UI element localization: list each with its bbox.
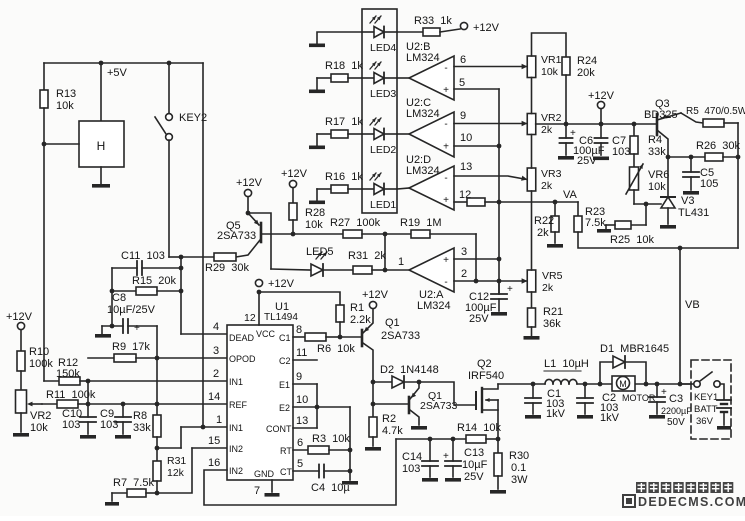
svg-text:+: + bbox=[570, 128, 576, 139]
svg-text:C14: C14 bbox=[402, 451, 422, 463]
svg-text:25V: 25V bbox=[464, 471, 484, 483]
wire R23 to lower bus / right bus bbox=[578, 232, 738, 248]
terminal +12V mid bbox=[588, 90, 615, 124]
svg-text:GND: GND bbox=[254, 469, 275, 479]
svg-text:TL1494: TL1494 bbox=[264, 312, 298, 323]
svg-text:R10: R10 bbox=[29, 346, 49, 358]
svg-text:VR6: VR6 bbox=[648, 169, 669, 181]
svg-text:8: 8 bbox=[296, 324, 302, 336]
svg-text:KEY1: KEY1 bbox=[694, 392, 718, 403]
svg-text:IN2: IN2 bbox=[229, 444, 243, 454]
wiper arrow VR2 left bbox=[27, 402, 42, 407]
svg-text:+5V: +5V bbox=[107, 67, 128, 79]
svg-text:3W: 3W bbox=[511, 474, 528, 486]
ground under V3 bbox=[660, 225, 676, 229]
resistor R29 30k bbox=[181, 253, 250, 274]
node VCC/+12V bbox=[257, 290, 262, 295]
svg-text:103: 103 bbox=[62, 419, 80, 431]
IC U1 TL1494 bbox=[208, 301, 308, 497]
wire +12V to Q5 emitter bbox=[247, 197, 249, 213]
wire L1 to motor/battery bbox=[577, 383, 691, 385]
svg-text:R15 20k: R15 20k bbox=[132, 275, 177, 287]
resistor R15 20k bbox=[112, 275, 181, 295]
wiper arrow VR2 bbox=[522, 121, 528, 126]
terminal +12V left bbox=[6, 311, 33, 330]
rheostat VR6 10k bbox=[626, 154, 669, 194]
node +12V/C7 bbox=[599, 122, 604, 127]
capacitor C11 103 bbox=[112, 250, 181, 275]
wire R9 node to REF row bbox=[156, 358, 158, 404]
ground under R21 bbox=[524, 336, 540, 340]
node pin1/top bus bbox=[201, 425, 206, 430]
capacitor C14 103 bbox=[402, 439, 438, 477]
node R3/gnd-col bbox=[348, 448, 353, 453]
svg-text:10: 10 bbox=[460, 132, 472, 144]
wire R19 to pin2 bbox=[475, 234, 477, 281]
op-amp U2:D LM324 bbox=[406, 154, 454, 210]
wire H to left bus bbox=[44, 143, 79, 145]
svg-text:IN1: IN1 bbox=[229, 423, 243, 433]
svg-text:LM324: LM324 bbox=[406, 165, 440, 177]
svg-text:D1 MBR1645: D1 MBR1645 bbox=[600, 343, 669, 355]
wire VA bus vertical bbox=[498, 89, 500, 294]
node R27/R19 bbox=[383, 232, 388, 237]
svg-text:R13: R13 bbox=[56, 88, 76, 100]
ground at R17 bbox=[309, 146, 325, 150]
LED LED5 bbox=[271, 246, 353, 276]
svg-text:2k: 2k bbox=[542, 282, 554, 294]
node R4 top bbox=[632, 122, 637, 127]
wire C8 to R9 node bbox=[156, 326, 158, 358]
node R7/R31 bbox=[155, 491, 160, 496]
battery box KEY1 BATT 36V bbox=[691, 360, 731, 439]
wire VR1 top to R24 bbox=[532, 33, 567, 57]
svg-text:BATT: BATT bbox=[694, 404, 718, 415]
svg-text:1: 1 bbox=[398, 256, 404, 268]
svg-text:36V: 36V bbox=[696, 416, 714, 427]
pin 5 label bbox=[459, 77, 465, 89]
potentiometer VR3 2k bbox=[527, 168, 561, 192]
potentiometer VR1 10k bbox=[527, 54, 561, 78]
watermark bbox=[623, 482, 745, 509]
svg-text:2: 2 bbox=[213, 368, 219, 380]
resistor R1 2.2k bbox=[336, 302, 371, 337]
ground under C13 bbox=[445, 478, 461, 482]
svg-text:36k: 36k bbox=[543, 318, 561, 330]
ground at Q1 clamp bbox=[411, 426, 427, 430]
resistor R5 470/0.5W bbox=[686, 106, 745, 127]
svg-text:LED5: LED5 bbox=[306, 246, 334, 258]
resistor R3 10k bbox=[293, 433, 350, 454]
svg-text:R27 100k: R27 100k bbox=[330, 217, 381, 229]
wire C10 column bbox=[87, 381, 89, 417]
svg-text:R6 10k: R6 10k bbox=[317, 343, 355, 355]
capacitor C1 103 1kV bbox=[525, 384, 566, 420]
pin 12 label bbox=[459, 189, 471, 201]
svg-text:H: H bbox=[97, 139, 106, 153]
pin 7 GND wire bbox=[271, 480, 273, 492]
resistor R11 100k bbox=[42, 389, 96, 408]
svg-text:R22: R22 bbox=[534, 215, 554, 227]
node VA pin12 bbox=[497, 200, 502, 205]
ground at C8 bbox=[95, 334, 111, 338]
svg-text:10k: 10k bbox=[541, 66, 559, 78]
svg-text:9: 9 bbox=[296, 371, 302, 383]
svg-text:13: 13 bbox=[460, 161, 472, 173]
ground under C1 bbox=[525, 415, 541, 419]
node H-left junction bbox=[42, 142, 47, 147]
svg-text:5: 5 bbox=[459, 77, 465, 89]
svg-text:V3: V3 bbox=[681, 195, 694, 207]
svg-text:+12V: +12V bbox=[473, 22, 500, 34]
capacitor C12 100uF 25V bbox=[465, 281, 513, 325]
svg-text:20k: 20k bbox=[577, 67, 595, 79]
wire VR2 to ground bbox=[20, 413, 22, 432]
svg-text:VR1: VR1 bbox=[541, 54, 562, 66]
svg-text:2k: 2k bbox=[537, 227, 549, 239]
resistor R27 100k bbox=[330, 217, 385, 238]
ground at R25 bbox=[597, 229, 611, 233]
svg-text:R18 1k: R18 1k bbox=[325, 60, 363, 72]
wire R17 to ground bbox=[316, 134, 318, 145]
node C1 top bbox=[531, 382, 536, 387]
svg-text:Q1: Q1 bbox=[385, 317, 400, 329]
capacitor C8 10uF/25V bbox=[102, 292, 157, 334]
svg-text:+12V: +12V bbox=[236, 177, 263, 189]
wire pin2 to VR5 wiper bbox=[454, 280, 527, 282]
potentiometer VR2 10k (left) bbox=[16, 371, 52, 434]
svg-text:103: 103 bbox=[402, 463, 420, 475]
svg-text:3: 3 bbox=[461, 246, 467, 258]
node R9/C8 bbox=[155, 356, 160, 361]
svg-text:1kV: 1kV bbox=[546, 408, 566, 420]
node C6/R24 bbox=[564, 122, 569, 127]
node KEY2 top junction bbox=[167, 61, 172, 66]
svg-text:2SA733: 2SA733 bbox=[420, 400, 458, 412]
wire REF row bbox=[88, 403, 227, 405]
hall sensor H bbox=[79, 121, 124, 167]
svg-text:14: 14 bbox=[208, 391, 220, 403]
resistor R21 36k bbox=[528, 306, 564, 330]
svg-text:+: + bbox=[443, 451, 449, 462]
svg-text:+: + bbox=[443, 142, 449, 153]
svg-text:E1: E1 bbox=[279, 380, 290, 390]
wire pin15 to R7/R31 node bbox=[157, 448, 192, 493]
wire ground column bbox=[349, 407, 351, 480]
svg-text:E2: E2 bbox=[279, 403, 290, 413]
svg-text:L1 10µH: L1 10µH bbox=[544, 358, 589, 370]
resistor R22 2k bbox=[534, 202, 559, 243]
wire R21 to ground bbox=[531, 327, 533, 336]
node R8/R31 bbox=[155, 446, 160, 451]
ground under C9 bbox=[115, 435, 131, 439]
svg-text:C2: C2 bbox=[279, 356, 291, 366]
svg-text:TL431: TL431 bbox=[678, 207, 709, 219]
svg-text:LED4: LED4 bbox=[370, 42, 396, 54]
node LED5/R31 bbox=[383, 268, 388, 273]
svg-text:-: - bbox=[444, 63, 447, 74]
svg-text:6: 6 bbox=[460, 54, 466, 66]
svg-text:C3: C3 bbox=[669, 393, 683, 405]
resistor R9 17k bbox=[88, 341, 227, 362]
svg-text:2.2k: 2.2k bbox=[350, 314, 371, 326]
svg-text:VR5: VR5 bbox=[542, 270, 563, 282]
capacitor C7 103 bbox=[595, 124, 631, 158]
svg-text:+: + bbox=[507, 284, 513, 295]
label VA bbox=[563, 189, 578, 201]
svg-text:+12V: +12V bbox=[6, 311, 33, 323]
ground at R16 bbox=[309, 201, 325, 205]
node +5V junction bbox=[99, 61, 104, 66]
node C13 top bbox=[451, 437, 456, 442]
svg-text:0.1: 0.1 bbox=[511, 462, 526, 474]
wire pin9 to VR2 wiper bbox=[454, 123, 527, 125]
node VA/R22 bbox=[553, 200, 558, 205]
wire E1-CONT column bbox=[316, 384, 318, 428]
LED LED3 bbox=[362, 62, 397, 100]
ground under R22 bbox=[547, 244, 563, 248]
svg-text:7.5k: 7.5k bbox=[585, 217, 606, 229]
svg-text:IRF540: IRF540 bbox=[468, 370, 504, 382]
ground under C2 bbox=[577, 415, 593, 419]
wire pin13 to VR3 wiper bbox=[454, 176, 527, 180]
wire R27 node down to LED5 row bbox=[384, 234, 386, 270]
wire left bus down to R12 row bbox=[43, 108, 45, 381]
shunt regulator V3 TL431 bbox=[661, 157, 709, 224]
node R26 right bbox=[736, 155, 741, 160]
resistor R13 bbox=[40, 88, 76, 112]
wire U2:D output to LED1 bbox=[397, 188, 409, 189]
resistor R6 10k bbox=[293, 333, 355, 355]
svg-text:R8: R8 bbox=[133, 410, 147, 422]
svg-text:DEDECMS.COM: DEDECMS.COM bbox=[638, 495, 745, 509]
transistor Q1 2SA733 (clamp) bbox=[373, 382, 458, 425]
ground under C6 bbox=[558, 156, 574, 160]
switch KEY2 bbox=[155, 63, 207, 257]
wire pin16 sense bus bbox=[204, 439, 396, 505]
svg-text:M: M bbox=[619, 379, 627, 389]
wire R8 to node bbox=[156, 437, 158, 448]
LED indicator box bbox=[362, 9, 397, 213]
svg-text:5: 5 bbox=[297, 458, 303, 470]
svg-text:R31 2k: R31 2k bbox=[348, 250, 386, 262]
svg-text:10: 10 bbox=[296, 394, 308, 406]
wire VR6/V3 ref row bbox=[634, 203, 661, 205]
svg-text:R1: R1 bbox=[350, 302, 364, 314]
resistor R23 7.5k bbox=[574, 202, 606, 232]
svg-text:10µF/25V: 10µF/25V bbox=[107, 304, 156, 316]
resistor R10 100k bbox=[17, 330, 53, 371]
node VA pin2 bbox=[497, 279, 502, 284]
svg-text:R26 30k: R26 30k bbox=[696, 140, 741, 152]
resistor R17 1k bbox=[317, 116, 363, 138]
node R11/C10 bbox=[86, 402, 91, 407]
wire pin5 to VA bus bbox=[454, 88, 499, 90]
svg-text:R28: R28 bbox=[305, 207, 325, 219]
wire top rail down to IN1 pin1 bbox=[202, 63, 204, 427]
ground under R30 bbox=[490, 490, 506, 494]
terminal +12V at Q1 bbox=[362, 289, 389, 309]
svg-text:R4: R4 bbox=[648, 134, 662, 146]
svg-text:150k: 150k bbox=[56, 368, 80, 380]
svg-text:-: - bbox=[444, 173, 447, 184]
node VB top bbox=[678, 246, 683, 251]
pin 13 label bbox=[460, 161, 472, 173]
node R28 bottom bbox=[291, 232, 296, 237]
node E1/E2 bbox=[315, 405, 320, 410]
svg-text:LED1: LED1 bbox=[370, 199, 396, 211]
svg-text:33k: 33k bbox=[648, 146, 666, 158]
resistor R26 30k bbox=[668, 140, 741, 161]
terminal +12V at Q5 bbox=[236, 177, 263, 197]
node Q5 emitter bbox=[246, 211, 251, 216]
svg-text:VR2: VR2 bbox=[30, 410, 51, 422]
svg-text:Q2: Q2 bbox=[477, 358, 492, 370]
node KEY2/R29/C11 bbox=[179, 255, 184, 260]
wiper arrow VR5 bbox=[522, 278, 528, 283]
svg-text:4.7k: 4.7k bbox=[382, 425, 403, 437]
resistor R24 20k bbox=[562, 55, 597, 79]
op-amp U2:C LM324 bbox=[406, 97, 454, 157]
node R15 left bbox=[110, 289, 115, 294]
capacitor C6 100uF 25V bbox=[560, 124, 605, 167]
svg-text:2k: 2k bbox=[541, 180, 553, 192]
wire H to ground bbox=[100, 167, 102, 184]
wire VR3-VR5 bbox=[531, 191, 533, 270]
resistor R8 33k bbox=[133, 404, 161, 437]
svg-text:R19 1M: R19 1M bbox=[400, 217, 442, 229]
node R1/R6 bbox=[338, 335, 343, 340]
svg-text:103: 103 bbox=[612, 146, 630, 158]
wire VR2-VR3 bbox=[531, 135, 533, 169]
transistor Q1 2SA733 (driver) bbox=[362, 309, 420, 382]
node R15 right bbox=[179, 289, 184, 294]
wire C11/R15 left column bbox=[111, 268, 113, 326]
svg-text:CONT: CONT bbox=[266, 424, 292, 434]
pin 11 C2 stub bbox=[293, 359, 317, 361]
resistor R30 0.1 3W bbox=[494, 439, 529, 489]
node REF/R8 bbox=[155, 402, 160, 407]
node VB/battery bbox=[678, 382, 683, 387]
wire right edge bus bbox=[737, 123, 739, 248]
node C14 top bbox=[428, 437, 433, 442]
svg-text:4: 4 bbox=[213, 321, 219, 333]
wire U2:B output to LED3 bbox=[397, 77, 409, 79]
capacitor C10 103 bbox=[62, 408, 96, 434]
resistor R31 2k bbox=[348, 250, 386, 274]
pin 10 label bbox=[460, 132, 472, 144]
svg-text:VB: VB bbox=[685, 299, 700, 311]
svg-text:R16 1k: R16 1k bbox=[325, 171, 363, 183]
node D1 right / motor right bbox=[644, 382, 649, 387]
capacitor C3 2200uF 50V bbox=[649, 384, 692, 428]
switch KEY1 bbox=[680, 372, 720, 387]
ground under C7 bbox=[593, 157, 609, 161]
svg-text:2: 2 bbox=[461, 268, 467, 280]
svg-text:DEAD: DEAD bbox=[229, 333, 255, 343]
svg-text:2SA733: 2SA733 bbox=[381, 330, 420, 342]
ground under C10 bbox=[80, 435, 96, 439]
svg-text:RT: RT bbox=[280, 446, 292, 456]
capacitor C13 10uF 25V bbox=[443, 439, 488, 483]
svg-text:+: + bbox=[443, 195, 449, 206]
node C9 top bbox=[121, 402, 126, 407]
svg-text:LM324: LM324 bbox=[406, 108, 440, 120]
ground under C12 bbox=[491, 312, 507, 316]
svg-text:10k: 10k bbox=[648, 181, 666, 193]
wire CONT bbox=[293, 427, 317, 429]
node C3 top bbox=[655, 382, 660, 387]
svg-text:1kV: 1kV bbox=[600, 412, 620, 424]
svg-text:-: - bbox=[444, 277, 447, 288]
svg-text:2k: 2k bbox=[541, 124, 553, 136]
svg-text:R3 10k: R3 10k bbox=[312, 433, 350, 445]
svg-text:REF: REF bbox=[229, 400, 248, 410]
wire pin1 jog bbox=[180, 427, 182, 448]
svg-text:11: 11 bbox=[296, 347, 307, 359]
pin 6 label bbox=[460, 54, 466, 66]
transistor Q3 BD325 bbox=[644, 98, 703, 157]
wire left bus upper bbox=[43, 63, 45, 90]
svg-text:2200µF: 2200µF bbox=[661, 406, 692, 416]
svg-text:+12V: +12V bbox=[362, 289, 389, 301]
svg-text:BD325: BD325 bbox=[644, 109, 678, 121]
wire R24 to +12V bus bbox=[565, 75, 567, 124]
svg-text:7: 7 bbox=[254, 485, 260, 497]
wire KEY2 to R29 node bbox=[169, 256, 181, 258]
resistor R28 10k bbox=[289, 188, 325, 234]
resistor on pin 12 row bbox=[454, 198, 499, 206]
op-amp U2:A LM324 bbox=[409, 248, 454, 312]
ground under C14 bbox=[422, 478, 438, 482]
svg-text:R31: R31 bbox=[167, 455, 186, 467]
node D1 left / motor left bbox=[598, 382, 603, 387]
svg-text:VCC: VCC bbox=[256, 329, 276, 339]
wire pin6 to VR1 wiper bbox=[454, 66, 527, 68]
ground at RT/CT bbox=[342, 481, 358, 485]
svg-text:R21: R21 bbox=[543, 306, 563, 318]
ground under H bbox=[92, 184, 110, 188]
svg-text:C4 10µ: C4 10µ bbox=[311, 482, 350, 494]
pin 9 label bbox=[460, 110, 466, 122]
svg-text:25V: 25V bbox=[469, 313, 489, 325]
wire pin4 DEAD row bbox=[181, 333, 227, 335]
wire pin1 row bbox=[181, 426, 227, 428]
node R12/pin2 bbox=[86, 379, 91, 384]
capacitor C2 103 1kV bbox=[577, 384, 620, 424]
wire +12V to R1 bbox=[259, 292, 340, 305]
potentiometer VR2 2k bbox=[527, 112, 561, 136]
svg-text:105: 105 bbox=[700, 178, 718, 190]
pin 3 label bbox=[461, 246, 467, 258]
svg-text:3: 3 bbox=[213, 345, 219, 357]
svg-text:D2 1N4148: D2 1N4148 bbox=[380, 364, 439, 376]
svg-text:R2: R2 bbox=[382, 413, 396, 425]
node C2 top bbox=[583, 382, 588, 387]
svg-text:12: 12 bbox=[244, 312, 256, 324]
svg-text:10µF: 10µF bbox=[462, 459, 488, 471]
svg-text:C13: C13 bbox=[464, 447, 484, 459]
pin 1 label bbox=[398, 256, 404, 268]
LED LED4 bbox=[362, 16, 397, 54]
wire VR5-R21 bbox=[531, 292, 533, 308]
capacitor C9 103 bbox=[100, 404, 131, 434]
ground under C3 bbox=[649, 415, 665, 419]
diode D2 1N4148 bbox=[373, 364, 439, 388]
wire VR6 bottom bbox=[633, 190, 635, 204]
node Q1 base bbox=[371, 402, 376, 407]
diode D1 MBR1645 bbox=[600, 343, 669, 384]
